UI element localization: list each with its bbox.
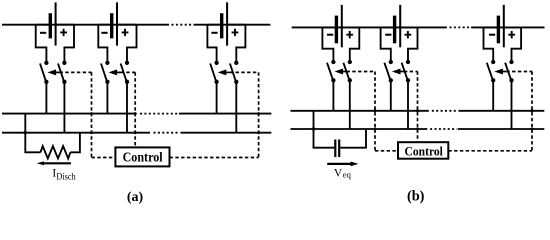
wire: top bus stub right of battery B3 [228,24,246,26]
wire: SB4a to bus [332,80,334,111]
wire: (b) top bus solid left segment [292,26,447,28]
wire: B1 pocket right side [64,25,74,63]
wire: SB3b to bus [235,82,237,133]
junction: control line crossing bus [531,109,534,112]
junction: control line crossing bus [257,131,260,134]
battery B1: plus label [60,29,67,36]
svg-text:(b): (b) [407,188,425,204]
control arrowhead pointing at switches of B1 [48,69,57,75]
wire: SB6a to bus [492,80,494,111]
wire: dashed control line to B3 switches [230,71,259,73]
battery B4: negative plate (short thick) [335,16,338,44]
battery B1: positive plate (long thin) [55,2,57,45]
wire: B2 pocket left side [98,25,107,63]
junction: left riser crossing bus2 [24,131,27,134]
node: sub-figure (a) series stack top bus [2,24,270,26]
control unit U2 [398,142,448,159]
control arrowhead pointing at switches of B3 [218,69,227,75]
switch SB4a top terminal [331,60,335,64]
switch SB3a bottom terminal [214,80,218,84]
switch SB5a blade [384,63,390,80]
battery B3: negative plate (short thick) [220,13,223,38]
node: (a) equalization bus 2 [2,132,271,134]
battery B3: plus label [232,29,239,36]
wire: resistor branch left riser from bus1 [25,114,40,153]
switch SB2a bottom terminal [105,80,109,84]
control unit U1 [115,147,169,166]
control arrowhead pointing at switches of B4 [335,69,344,75]
battery B5: negative plate (short thick) [393,16,396,44]
switch SB5a top terminal [389,60,393,64]
wire: (a) bus2 solid left [2,132,150,134]
wire: SB5b to bus [407,80,409,129]
switch SB1a blade [40,64,46,81]
battery B3: positive plate (long thin) [226,2,228,45]
junction: control line crossing bus [90,131,93,134]
junction: control line crossing bus [134,131,137,134]
switch SB4a bottom terminal [331,78,335,82]
wire: B1 pocket left side [36,25,47,63]
switch SB6b blade [505,63,511,80]
junction: left riser crossing bus2 [312,127,315,130]
switch SB6b bottom terminal [509,78,513,82]
switch SB4a blade [327,63,333,80]
wire: dashed control drop for B1 [91,72,93,157]
node: (a) equalization bus 1 [2,113,271,115]
wire: dashed control drop for B6 [531,72,533,151]
switch SB5a bottom terminal [389,78,393,82]
wire: dashed control feed left of U1 [92,157,116,159]
wire: (a) bus1 dotted continuation [140,113,178,115]
wire: B6 pocket right side [512,27,522,62]
switch SB3b bottom terminal [234,80,238,84]
switch SB1b top terminal [62,61,66,65]
wire: SB6b to bus [511,80,513,129]
wire: capacitor branch left riser from bus1 [314,111,335,148]
switch SB5b blade [402,63,408,80]
wire: dashed control feed right of U1 [170,157,259,159]
arrow: discharge current direction [37,161,72,165]
wire: (b) bus2 dotted continuation [430,128,457,130]
battery B6: negative plate (short thick) [497,16,500,44]
switch SB3b top terminal [234,61,238,65]
svg-text:Disch: Disch [56,172,76,182]
battery B5: plus label [405,31,412,38]
battery B1: minus label [40,32,46,34]
svg-text:Control: Control [405,144,444,159]
wire: top bus stub left of battery B6 [484,26,498,28]
wire: top bus stub left of battery B2 [98,24,110,26]
wire: SB4b to bus [349,80,351,129]
wire: SB5a to bus [390,80,392,111]
battery B6: minus label [489,34,495,36]
switch SB2a blade [101,64,107,81]
wire: (b) top bus solid right segment [471,26,544,28]
switch SB3b blade [230,64,236,81]
switch SB4b bottom terminal [348,78,352,82]
wire: SB1a to bus [45,82,47,114]
wire: dashed control drop for B2 [134,72,136,147]
svg-text:eq: eq [343,170,352,180]
junction: control line crossing bus [416,128,419,131]
wire: (b) bus2 solid left [291,128,428,130]
switch SB5b top terminal [406,60,410,64]
junction: control line crossing bus [416,109,419,112]
switch SB3a top terminal [214,61,218,65]
junction: control line crossing bus [90,112,93,115]
wire: (b) bus1 solid right [459,110,545,112]
switch SB1b bottom terminal [62,80,66,84]
wire: B2 pocket right side [127,25,137,63]
control arrowhead pointing at switches of B6 [494,69,503,75]
wire: top bus stub right of battery B4 [343,26,360,28]
wire: (b) bus1 dotted continuation [432,110,458,112]
wire: dashed control drop for B3 [258,72,260,157]
wire: dashed control feed left of U2 [375,150,398,152]
wire: B3 pocket left side [207,25,216,63]
switch SB2b blade [121,64,127,81]
battery B6: positive plate (long thin) [503,5,505,47]
battery B1: negative plate (short thick) [49,13,52,38]
wire: resistor branch right run and riser to bus2 [70,133,80,153]
wire: B3 pocket right side [236,25,245,63]
wire: (a) bus1 solid left [2,113,136,115]
wire: (a) bus1 solid right [179,113,272,115]
switch SB4b blade [343,63,349,80]
switch SB1a top terminal [44,61,48,65]
wire: top bus stub right of battery B2 [118,24,137,26]
battery B3: minus label [211,32,217,34]
switch SB5b bottom terminal [406,78,410,82]
wire: SB2a to bus [106,82,108,114]
switch SB1a bottom terminal [44,80,48,84]
wire: (b) bus1 solid left [291,110,429,112]
wire: B5 pocket right side [408,27,418,62]
wire: B5 pocket left side [381,27,391,62]
wire: (b) bus2 solid right [458,128,545,130]
switch SB6a top terminal [491,60,495,64]
svg-text:V: V [334,167,343,179]
switch SB2b bottom terminal [125,80,129,84]
battery B5: positive plate (long thin) [399,5,401,47]
node: (b) equalization bus 2 [291,128,545,130]
wire: (a) bus2 solid right [181,132,272,134]
switch SB6b top terminal [509,60,513,64]
wire: (a) top bus dotted continuation [172,24,193,26]
junction: control line crossing bus [374,109,377,112]
svg-text:Control: Control [123,150,163,165]
junction: control line crossing bus [134,112,137,115]
wire: B4 pocket right side [350,27,360,62]
battery B4: minus label [327,34,333,36]
wire: dashed control drop for B4 [374,72,376,151]
arrow: equalization voltage reference [327,162,358,167]
wire: dashed control line to B1 switches [60,71,92,73]
wire: top bus stub right of battery B6 [505,26,522,28]
switch SB6a blade [487,63,493,80]
wire: top bus stub right of battery B1 [56,24,74,26]
battery B5: minus label [385,34,391,36]
switch SB4b top terminal [348,60,352,64]
wire: capacitor branch right run and riser to bus2 [340,129,366,148]
switch SB1b blade [58,64,64,81]
battery B2: plus label [122,29,129,36]
control arrowhead pointing at switches of B2 [109,69,118,75]
wire: dashed control line to B5 switches [404,71,418,73]
wire: B4 pocket left side [322,27,333,62]
svg-text:(a): (a) [127,190,144,205]
wire: dashed control drop for B5 [417,72,419,143]
wire: top bus stub left of battery B5 [381,26,394,28]
switch SB2b top terminal [125,61,129,65]
battery B6: plus label [508,31,515,38]
wire: top bus stub left of battery B1 [36,24,49,26]
node: (b) equalization bus 1 [291,110,545,112]
wire: (a) top bus solid right segment [194,24,271,26]
switch SB6a bottom terminal [491,78,495,82]
wire: dashed control line to B2 switches [121,71,136,73]
battery B2: positive plate (long thin) [116,2,118,45]
battery B4: plus label [346,31,353,38]
wire: B6 pocket left side [484,27,494,62]
capacitor C1 (equalization) [335,140,339,158]
battery B2: negative plate (short thick) [110,13,113,38]
wire: top bus stub right of battery B5 [401,26,418,28]
wire: top bus stub left of battery B3 [207,24,220,26]
wire: dashed control line to B6 switches [506,71,532,73]
wire: dashed control line to B4 switches [347,71,376,73]
control arrowhead pointing at switches of B5 [392,69,401,75]
junction: control line crossing bus [531,128,534,131]
wire: SB2b to bus [126,82,128,133]
wire: dashed control feed right of U2 [448,150,532,152]
wire: SB1b to bus [63,82,65,133]
junction: control line crossing bus [374,128,377,131]
wire: SB3a to bus [216,82,218,114]
wire: (a) bus2 dotted continuation [154,132,180,134]
switch SB3a blade [210,64,216,81]
battery B2: minus label [101,32,107,34]
switch SB2a top terminal [105,61,109,65]
node: sub-figure (b) series stack top bus [292,26,545,28]
wire: (b) top bus dotted continuation [450,26,471,28]
junction: control line crossing bus [257,112,260,115]
battery B4: positive plate (long thin) [341,5,343,47]
wire: (a) top bus solid left segment [2,24,169,26]
wire: top bus stub left of battery B4 [322,26,335,28]
resistor R1 (discharge shunt) [41,146,71,158]
